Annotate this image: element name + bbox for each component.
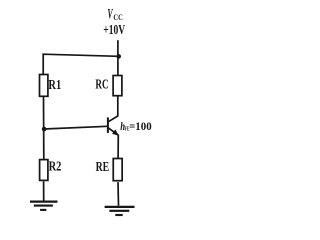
svg-text:V: V [108,6,114,22]
svg-text:CC: CC [113,14,122,23]
svg-text:RE: RE [96,158,110,174]
svg-text:R1: R1 [48,77,61,93]
svg-text:RC: RC [95,77,108,92]
svg-text:R2: R2 [49,158,62,174]
svg-text:+10V: +10V [103,22,125,37]
svg-text:=100: =100 [129,121,152,133]
